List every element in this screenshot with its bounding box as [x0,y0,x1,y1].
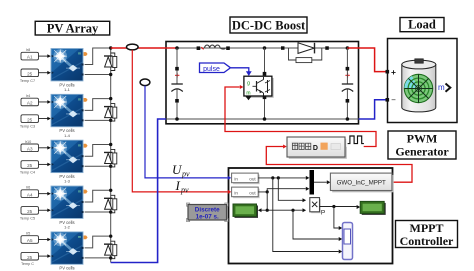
svg-text:out: out [249,176,256,181]
label: Upv [172,162,190,179]
node: string junction bottom of diode 3 [109,165,112,168]
wire: irradiance into PV cells 1-1 [39,54,51,58]
svg-text:Temp C5: Temp C5 [20,216,35,220]
goto tag: pulse [200,63,231,73]
node: display junction [266,209,269,212]
wire: irradiance into PV cells 1-5 [39,238,51,242]
wire: PV1 negative terminal to string [85,74,111,76]
wire: boost bottom rail [166,118,359,120]
wire: irradiance into PV cells 1-2 [39,192,51,196]
wire: irradiance into PV cells 1-3 [39,146,51,150]
svg-text:m: m [78,189,81,193]
battery m output [438,83,450,92]
svg-text:PWM: PWM [407,132,438,146]
svg-text:Ir6: Ir6 [26,186,30,190]
wire: PV2 negative terminal to string [85,119,111,121]
wire: Ipv to mux [258,187,309,192]
constant block irradiance A2 [21,94,39,106]
node: string junction top of diode 2 [109,97,112,100]
MPPT controller subsystem box [229,168,393,264]
PV cells block 1-2 [51,186,88,218]
svg-text:−: − [391,96,396,105]
node: Upv branch 1 [271,176,274,179]
svg-text:Load: Load [408,18,436,32]
wire: PV3 negative terminal to string [85,165,111,167]
wire: irradiance into PV cells 1-4 [39,100,51,104]
svg-text:A3: A3 [27,146,33,151]
wire: P down to scope input 1 [334,207,342,231]
powergui block Discrete [187,203,229,222]
wire: PV4 negative terminal to string [85,211,111,213]
node: bottom rail / input capacitor junction [175,117,179,121]
constant block temperature 25 (unit 1) [20,69,39,83]
wire: temperature into PV cells 1-5 [39,254,51,258]
svg-text:MPPT: MPPT [410,221,444,235]
svg-text:1-1: 1-1 [64,87,71,92]
wire: PV series string vertical bus [110,48,112,263]
PV cells block 1-5 [51,232,88,264]
node: string junction bottom of diode 2 [109,119,112,122]
PV cells block 1-4 [51,94,88,126]
node: scope branch junction [291,209,294,212]
wire: Ipv down to product line [266,192,268,210]
node: top rail / output capacitor junction [346,46,350,50]
label: PV cells 1-2 [59,220,74,230]
pulse wave icon [346,133,364,147]
svg-text:m: m [246,91,250,97]
svg-text:A2: A2 [27,101,33,106]
node: top rail / IGBT junction [263,46,267,50]
wire: red segment entering boost [166,47,177,49]
svg-text:GWO_InC_MPPT: GWO_InC_MPPT [337,180,386,187]
voltage measurement ellipse [140,79,150,86]
svg-text:Ir5: Ir5 [26,232,30,236]
input capacitor C1 branch [171,48,182,119]
svg-text:in: in [234,190,238,195]
wire: PV5 negative terminal to string [85,257,111,259]
node: string junction bottom of diode 5 [109,256,112,259]
node: Upv branch 2 [277,176,280,179]
IGBT switch block [244,76,274,100]
display block P (left) [233,204,258,218]
svg-text:Temp C7: Temp C7 [20,79,35,83]
wire: product second input / display line [258,208,306,212]
node: string junction bottom of diode 4 [109,210,112,213]
wire: PV4 positive terminal to string [85,190,111,202]
constant block irradiance A4 [21,186,39,198]
wire: PV2 positive terminal to string [85,99,111,111]
PV cells block 1-3 [51,140,88,172]
svg-text:D: D [313,145,318,152]
svg-text:Temp C4: Temp C4 [20,171,35,175]
wire: pulse signal (blue) to IGBT gate [231,68,252,76]
wire: negative return (blue) from boost to PV string bottom [111,119,166,263]
wire: temperature into PV cells 1-1 [39,71,51,75]
svg-text:+: + [391,67,396,77]
svg-text:25: 25 [27,209,33,214]
node: string junction top of diode 1 [109,46,112,49]
svg-text:25: 25 [27,71,33,76]
label: P [321,210,325,217]
wire: PV1 positive terminal to string [85,48,111,65]
node: top rail / input capacitor junction [175,46,179,50]
label: PV cells 1-3 [59,174,74,184]
wire: Upv to mux [258,176,309,180]
svg-text:A4: A4 [27,192,33,197]
label box: PWM Generator [388,131,456,159]
label box: DC-DC Boost [230,17,307,33]
constant block irradiance A3 [21,140,39,152]
label: PV cells 1-5 [59,266,74,271]
svg-text:I: I [175,178,181,193]
GWO_InC_MPPT block [330,173,393,192]
svg-text:25: 25 [27,255,33,260]
wire: IGBT emitter down to bottom rail [263,96,267,120]
node: Ipv branch [266,190,269,193]
inport block in/out (Upv) [232,173,260,184]
wire: Ipv to scope input 2 [293,210,342,241]
svg-text:m: m [78,235,81,239]
svg-text:1-3: 1-3 [64,179,71,184]
wire: PV array positive rail (red) to boost input [111,47,166,49]
svg-text:Controller: Controller [400,234,454,248]
wire: Upv down to product [278,178,306,202]
DC-DC boost subsystem box [166,42,359,124]
constant block temperature 25 (unit 2) [20,115,39,129]
wire: temperature into PV cells 1-2 [39,208,51,212]
inport block in/out (Ipv) [232,187,260,198]
svg-text:pv: pv [180,185,189,194]
svg-text:pv: pv [181,170,190,179]
battery block [402,59,436,112]
svg-text:pulse: pulse [203,66,220,73]
mux block [310,170,315,195]
wire: temperature into PV cells 1-4 [39,117,51,121]
wire: Ipv measurement (red) down to MPPT input [132,50,231,194]
svg-text:out: out [249,190,256,195]
label box: Load [400,18,444,32]
svg-text:in: in [234,176,238,181]
svg-text:A5: A5 [27,238,33,243]
wire: Upv measurement (blue) down to MPPT input [145,86,231,180]
svg-text:Temp C: Temp C [21,262,34,266]
inductor L [197,45,230,50]
svg-text:Ir4: Ir4 [26,94,30,98]
scope block [343,223,353,260]
display block P (right) [360,201,386,215]
svg-text:25: 25 [27,163,33,168]
node: string junction top of diode 3 [109,143,112,146]
current measurement ellipse on positive rail [127,44,139,50]
load - terminal [386,96,397,105]
Load subsystem box [388,39,458,123]
wire: PWM pulse (red) from generator to IGBT gate [225,85,376,147]
node: P branch [332,205,335,208]
svg-text:1-2: 1-2 [64,224,71,229]
svg-text:1-4: 1-4 [64,133,71,138]
load + terminal [386,67,397,77]
product block x [310,198,321,214]
constant block irradiance A5 [21,232,39,244]
svg-text:Temp C3: Temp C3 [20,125,35,129]
bypass diode D2 with parallel resistor [104,104,117,122]
bypass diode D4 with parallel resistor [104,195,117,213]
node: bottom rail / output capacitor junction [346,117,350,121]
svg-text:Ir8: Ir8 [26,48,30,52]
bypass diode D1 with parallel resistor [104,53,117,71]
label: Ipv [175,178,190,195]
wire: top rail down to IGBT collector [263,48,267,76]
svg-text:25: 25 [27,117,33,122]
wire: product output P [320,205,361,209]
svg-text:A1: A1 [27,55,33,60]
svg-text:PV Array: PV Array [47,21,99,35]
constant block temperature 25 (unit 4) [20,207,39,221]
wire: temperature into PV cells 1-3 [39,163,51,167]
output capacitor C2 branch [342,48,353,119]
node: bottom rail / IGBT junction [263,117,267,121]
constant block temperature 25 (unit 3) [20,161,39,175]
svg-text:DC-DC Boost: DC-DC Boost [232,18,306,32]
label: PV cells 1-4 [59,128,74,138]
wire: duty cycle D (red) from MPPT to duty block [266,145,412,183]
wire: PV5 positive terminal to string [85,236,111,248]
node: string junction top of diode 5 [109,234,112,237]
PV cells block 1-1 [51,49,88,81]
wire: boost output negative (blue) to load [359,100,386,119]
node: string junction bottom of diode 1 [109,73,112,76]
svg-text:m: m [78,98,81,102]
wire: PV3 positive terminal to string [85,144,111,156]
svg-text:Ir10: Ir10 [25,140,32,144]
wire: boost output positive (red) to load [347,48,385,72]
wire: boost top rail [166,47,359,49]
svg-text:m: m [438,83,445,92]
label: PV cells 1-1 [59,82,74,92]
bypass diode D3 with parallel resistor [104,149,117,167]
boost diode with snubber resistor [281,43,329,63]
node: string junction top of diode 4 [109,189,112,192]
constant block temperature 25 (unit 5) [21,252,39,266]
duty cycle block (PWM generator) [287,137,347,159]
wire: mux to GWO block [314,180,330,184]
svg-text:m: m [78,52,81,56]
label box: PV Array [35,21,110,35]
svg-text:Generator: Generator [395,145,449,159]
bypass diode D5 with parallel resistor [104,241,117,259]
wire: Upv to scope input 3 [273,178,343,254]
svg-text:g: g [247,81,250,87]
constant block irradiance A1 [21,48,39,60]
label box: MPPT Controller [396,221,458,249]
svg-text:1e-07 s.: 1e-07 s. [196,213,219,220]
svg-text:P: P [321,210,325,217]
svg-text:m: m [78,143,81,147]
